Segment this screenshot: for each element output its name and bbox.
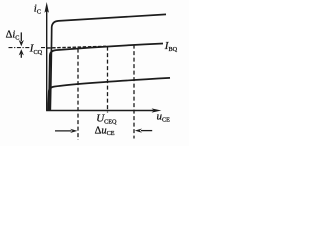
top curve <box>50 14 166 110</box>
middle curve I_BQ <box>49 44 163 111</box>
Delta i_C lower arrow (up) <box>19 49 24 58</box>
bottom curve <box>48 78 170 110</box>
dash-dot line at I_CQ level (left of axis) <box>9 47 47 49</box>
Delta i_C upper arrow (down) <box>19 32 24 46</box>
dashed line at Q level (right of axis) <box>47 46 106 48</box>
Delta u_CE right arrow (pointing left) <box>135 129 152 133</box>
vertical dashed line at u_CE min (x=78) <box>77 49 79 140</box>
x-axis u_CE <box>46 108 161 112</box>
y-axis i_C <box>44 2 49 111</box>
Delta u_CE left arrow (pointing right) <box>55 129 77 133</box>
vertical dashed line at u_CE max (x=134) <box>133 45 135 139</box>
vertical dashed line at U_CEQ (x=107.5) <box>107 47 109 113</box>
